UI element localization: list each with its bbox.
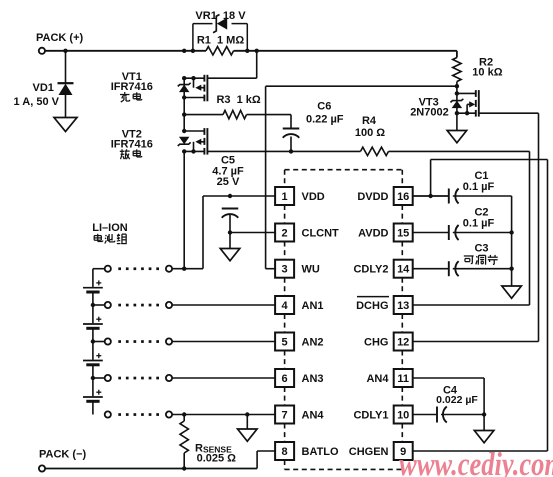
svg-text:15: 15 — [397, 228, 409, 240]
wire R2 bottom — [456, 82, 458, 131]
node R2-WU junction — [455, 84, 459, 88]
node connector right circle row 6 — [166, 375, 172, 381]
wire cap bus — [511, 196, 513, 286]
label C4 — [443, 385, 458, 397]
node C2 bus junction — [509, 230, 513, 234]
wire DVDD to C1 — [412, 195, 449, 197]
pin 1 box — [275, 187, 294, 205]
node C5 top junction — [228, 194, 232, 198]
label VT2 — [122, 129, 142, 141]
label R4 value — [355, 127, 385, 139]
svg-text:2N7002: 2N7002 — [410, 107, 449, 119]
svg-text:C3: C3 — [474, 243, 488, 255]
pin 13 box — [394, 296, 413, 314]
node connector left circle row 5 — [105, 338, 111, 344]
svg-text:10 kΩ: 10 kΩ — [472, 66, 502, 78]
node R3 junction — [182, 112, 186, 116]
node PACK(-) terminal — [39, 449, 87, 472]
wire R3 to C6 — [247, 115, 292, 129]
pin 15 name AVDD — [358, 228, 388, 240]
wire AN1 row — [172, 304, 275, 306]
capacitor C3 — [449, 261, 459, 276]
node VT2 body junction — [191, 149, 195, 153]
svg-text:WU: WU — [302, 264, 320, 276]
resistor R3 — [223, 110, 247, 118]
pin 9 box — [394, 442, 413, 460]
node connector left circle row 3 — [105, 266, 111, 272]
label C6 value — [306, 113, 344, 125]
wire AN4 row — [172, 414, 275, 416]
pin 6 box — [275, 369, 294, 387]
node VT2 drain junction — [182, 129, 186, 133]
node connector left circle row 7 — [105, 411, 111, 417]
label VT2 part — [111, 139, 153, 151]
node VT1 body junction — [191, 76, 195, 80]
svg-text:AN4: AN4 — [302, 410, 325, 422]
watermark www.cediy.com — [399, 447, 553, 477]
ground C5 — [220, 249, 240, 261]
diode VD1 — [58, 83, 74, 117]
node PACK(+) terminal — [36, 32, 83, 54]
svg-text:AN2: AN2 — [302, 337, 324, 349]
pin 4 name AN1 — [302, 300, 324, 312]
wire AN3 row — [172, 377, 275, 379]
node VT1 source junction — [182, 95, 186, 99]
svg-text:16: 16 — [397, 191, 409, 203]
node AN4 ground junction — [245, 412, 249, 416]
pin 8 name BATLO — [302, 446, 340, 458]
transistor VT3 — [457, 90, 479, 117]
svg-text:0.022 µF: 0.022 µF — [436, 394, 478, 406]
node connector right circle row 7 — [166, 411, 172, 417]
svg-text:14: 14 — [397, 264, 410, 276]
node battery chain row 5 — [91, 339, 105, 343]
pin 13 name DCHG — [356, 297, 389, 312]
pin 6 name AN3 — [302, 373, 324, 385]
wire battery top corner — [93, 268, 105, 270]
wire connector dotted row 7 — [118, 413, 159, 416]
wire R3 left — [184, 114, 223, 116]
battery cell B3 — [83, 342, 103, 379]
pin 11 box — [394, 369, 413, 387]
svg-text:2: 2 — [282, 228, 288, 240]
pin 14 box — [394, 260, 413, 278]
svg-text:CLCNT: CLCNT — [302, 228, 340, 240]
svg-text:R3 1 kΩ: R3 1 kΩ — [216, 94, 260, 106]
node connector left circle row 6 — [105, 375, 111, 381]
wire VD1 branch — [65, 51, 67, 83]
pin 1 name VDD — [302, 191, 325, 203]
svg-text:0.1 µF: 0.1 µF — [463, 181, 495, 193]
node C4 junction — [482, 412, 486, 416]
svg-text:6: 6 — [282, 373, 288, 385]
svg-text:12: 12 — [397, 337, 409, 349]
resistor RSENSE — [180, 415, 188, 469]
capacitor C2 — [449, 225, 459, 240]
wire PACK(+) rail — [45, 50, 457, 52]
body diode VT1 — [178, 83, 191, 92]
wire C2 to bus — [453, 232, 512, 234]
label VT3 part — [410, 107, 449, 119]
svg-text:LI–ION: LI–ION — [92, 222, 128, 234]
node battery chain row 6 — [91, 376, 105, 380]
label VT2 chinese — [120, 149, 142, 159]
battery cell B2 — [83, 305, 103, 342]
wire pin to C1 — [412, 195, 449, 197]
pin 5 name AN2 — [302, 337, 324, 349]
svg-text:AVDD: AVDD — [358, 228, 388, 240]
wire connector dotted row 6 — [118, 377, 159, 380]
wire R4 to DCHG — [389, 151, 530, 305]
wire connector dotted row 3 — [118, 267, 159, 270]
svg-text:0.1 µF: 0.1 µF — [463, 218, 495, 230]
node rail junction VD1 — [63, 49, 67, 53]
ground VT3 — [447, 131, 467, 143]
node VT2 source junction — [182, 149, 186, 153]
pin 12 box — [394, 333, 413, 351]
svg-text:5: 5 — [282, 337, 288, 349]
svg-text:1 A, 50 V: 1 A, 50 V — [14, 96, 60, 108]
node rail junction VT1 gate — [255, 49, 259, 53]
svg-text:CHG: CHG — [364, 337, 388, 349]
pin 9 name CHGEN — [349, 446, 389, 458]
svg-text:C6: C6 — [317, 101, 331, 113]
label VT1 — [122, 71, 142, 83]
node C6 bottom junction — [289, 149, 293, 153]
ground VD1 — [54, 118, 77, 132]
pin 10 box — [394, 406, 413, 424]
svg-text:0.025 Ω: 0.025 Ω — [197, 452, 237, 464]
battery cell B4 — [83, 378, 103, 415]
wire CDLY1 to C4 — [412, 414, 437, 416]
wire VT3 gate to CHG — [479, 113, 539, 341]
wire pin to C2 — [412, 232, 449, 234]
label R4 — [362, 115, 377, 127]
svg-text:VDD: VDD — [302, 191, 325, 203]
resistor R1 — [206, 47, 234, 55]
svg-text:VD1: VD1 — [33, 82, 54, 94]
wire C4 ground stem — [483, 415, 485, 431]
svg-text:VR1 18 V: VR1 18 V — [195, 10, 246, 22]
capacitor C5 — [222, 209, 239, 218]
label C2 — [474, 207, 488, 219]
svg-text:7: 7 — [282, 410, 288, 422]
wire DCHG — [412, 304, 529, 306]
svg-text:10: 10 — [397, 410, 409, 422]
label VT1 chinese — [120, 92, 142, 102]
pin 16 box — [394, 187, 413, 205]
node C3 bus junction — [509, 267, 513, 271]
pin 15 box — [394, 224, 413, 242]
wire rail to R2 — [456, 51, 458, 58]
svg-text:PACK (−): PACK (−) — [39, 449, 86, 461]
wire connector dotted row 5 — [118, 340, 159, 343]
zener diode VR1 — [213, 15, 227, 33]
pin 2 box — [275, 224, 294, 242]
wire connector dotted row 4 — [118, 304, 159, 307]
label C5 rating — [217, 176, 240, 188]
node VT1 drain junction — [182, 76, 186, 80]
pin 11 name AN4 — [366, 373, 389, 385]
svg-text:R1 1 MΩ: R1 1 MΩ — [197, 35, 245, 47]
svg-text:CHGEN: CHGEN — [349, 446, 389, 458]
ground AN4 row — [238, 429, 257, 441]
label C6 — [317, 101, 331, 113]
pin 12 name CHG — [364, 337, 388, 349]
pin 2 name CLCNT — [302, 228, 340, 240]
node AN4 RSENSE junction — [182, 412, 186, 416]
wire WU line — [266, 86, 457, 269]
label C1 — [474, 170, 488, 182]
node rail junction R1 right — [245, 49, 249, 53]
svg-text:IFR7416: IFR7416 — [111, 139, 153, 151]
pin 8 box — [275, 442, 294, 460]
wire C5 ground stem — [229, 233, 231, 249]
svg-text:25 V: 25 V — [217, 176, 240, 188]
node DVDD junction — [428, 194, 432, 198]
label C3 — [474, 243, 488, 255]
pin 5 box — [275, 333, 294, 351]
label C2 value — [463, 218, 495, 230]
wire pin to C3 — [412, 268, 449, 270]
svg-text:AN1: AN1 — [302, 300, 324, 312]
ground cap bus — [502, 286, 521, 298]
node VT3 source junction — [455, 111, 459, 115]
wire CHG — [412, 341, 538, 343]
svg-text:AN3: AN3 — [302, 373, 324, 385]
ground C4 — [474, 431, 494, 443]
wire battery top row — [172, 268, 203, 270]
node rail junction VR1 left — [191, 49, 195, 53]
wire AN4 pin11 — [412, 378, 484, 415]
battery cell B1 — [83, 269, 103, 305]
wire BATLO link — [257, 451, 275, 469]
body diode VT3 — [450, 99, 463, 108]
wire VDD — [203, 196, 275, 269]
label battery chinese — [94, 234, 127, 244]
node connector right circle row 4 — [166, 302, 172, 308]
label VD1 rating — [14, 96, 60, 108]
svg-text:0.22 µF: 0.22 µF — [306, 113, 344, 125]
capacitor C6 — [283, 129, 300, 138]
wire PACK(-) rail — [45, 468, 257, 470]
wire AN2 row — [172, 341, 275, 343]
wire C5 bottom — [229, 214, 231, 233]
label VR1 value — [195, 10, 246, 22]
svg-text:3: 3 — [282, 264, 288, 276]
node battery chain row 4 — [91, 303, 105, 307]
svg-text:13: 13 — [397, 300, 409, 312]
node RSENSE bottom junction — [182, 466, 186, 470]
label RSENSE value — [197, 452, 237, 464]
transistor VT2 — [194, 128, 208, 155]
label R2 — [479, 56, 493, 68]
body diode VT2 — [178, 137, 191, 146]
node rail junction VT1 drain — [182, 49, 186, 53]
svg-text:1: 1 — [282, 191, 288, 203]
label C5 — [221, 155, 235, 167]
pin 4 box — [275, 296, 294, 314]
node connector right circle row 3 — [166, 266, 172, 272]
svg-text:8: 8 — [282, 446, 288, 458]
resistor R2 — [453, 58, 461, 82]
node connector left circle row 4 — [105, 302, 111, 308]
label C5 value — [212, 166, 244, 178]
pin 16 name DVDD — [357, 191, 388, 203]
svg-text:AN4: AN4 — [366, 373, 389, 385]
capacitor C4 — [437, 407, 447, 423]
pin 7 box — [275, 406, 294, 424]
label R1 value — [197, 35, 245, 47]
wire AN4 ground stem — [246, 415, 248, 430]
node battery top rail junction — [182, 267, 186, 271]
svg-text:PACK (+): PACK (+) — [36, 32, 83, 44]
node VT3 body junction — [465, 111, 469, 115]
svg-text:www.cediy.com: www.cediy.com — [399, 447, 553, 477]
wire VT2 top lead — [184, 130, 204, 132]
pin 3 name WU — [302, 264, 320, 276]
wire VR1 stubs — [193, 24, 247, 51]
node VT3 drain junction — [455, 91, 459, 95]
label C4 value — [436, 394, 478, 406]
svg-text:CDLY2: CDLY2 — [353, 264, 388, 276]
label R2 value — [472, 66, 502, 78]
pin 7 name AN4 — [302, 410, 325, 422]
label VT3 — [419, 97, 439, 109]
svg-text:4: 4 — [282, 300, 289, 312]
capacitor C1 — [449, 189, 459, 204]
wire CLCNT — [230, 232, 275, 234]
wire CHGEN — [412, 160, 547, 452]
label C3 chinese — [464, 255, 498, 265]
pin 14 name CDLY2 — [353, 264, 388, 276]
label C1 value — [463, 181, 495, 193]
wire VT1 drain-gate row — [184, 51, 257, 78]
svg-text:DCHG: DCHG — [356, 300, 388, 312]
IC U1 dashed outline — [285, 170, 403, 470]
wire C6 to gate row — [290, 137, 292, 152]
node C5 bottom junction — [228, 230, 232, 234]
svg-text:R4: R4 — [362, 115, 377, 127]
wire C4 to node — [441, 414, 484, 416]
label LI-ION — [92, 222, 128, 234]
svg-text:IFR7416: IFR7416 — [111, 81, 153, 93]
wire VT1-VT2 link — [183, 78, 185, 131]
svg-text:CDLY1: CDLY1 — [353, 410, 388, 422]
label R3 value — [216, 94, 260, 106]
wire VT2 to battery top — [183, 151, 185, 268]
label VD1 — [33, 82, 54, 94]
svg-text:DVDD: DVDD — [357, 191, 388, 203]
label VT1 part — [111, 81, 153, 93]
label RSENSE — [195, 443, 232, 455]
node connector right circle row 5 — [166, 338, 172, 344]
pin 10 name CDLY1 — [353, 410, 388, 422]
wire C3 to bus — [453, 268, 512, 270]
svg-text:BATLO: BATLO — [302, 446, 340, 458]
pin 3 box — [275, 260, 294, 278]
transistor VT1 — [184, 75, 207, 102]
svg-text:11: 11 — [397, 373, 409, 385]
wire VT2 gate row — [184, 150, 360, 152]
resistor R4 — [361, 147, 389, 155]
svg-text:100 Ω: 100 Ω — [355, 127, 385, 139]
wire C1 to bus — [453, 195, 512, 197]
